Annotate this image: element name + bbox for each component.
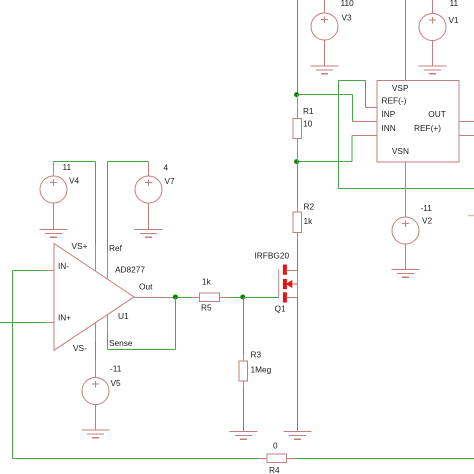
node Out junction dot	[173, 295, 178, 300]
svg-text:Out: Out	[139, 282, 153, 292]
resistor R2	[293, 202, 314, 241]
svg-text:REF(-): REF(-)	[382, 95, 407, 105]
svg-text:110: 110	[341, 0, 355, 8]
wire: VSP pin net vertical	[405, 0, 407, 81]
svg-text:R2: R2	[304, 202, 315, 212]
wire: INN staircase vertical	[351, 136, 353, 162]
svg-text:VS+: VS+	[72, 241, 88, 251]
resistor R3	[239, 350, 272, 389]
ground for V2	[392, 270, 420, 278]
voltage source V1	[419, 0, 459, 66]
svg-text:VS-: VS-	[73, 343, 87, 353]
wire: INP staircase vertical	[352, 95, 354, 122]
wire: node B to R2	[297, 162, 299, 206]
wire: REF(-) staircase vertical long	[338, 81, 340, 190]
voltage source V5	[82, 360, 122, 430]
svg-text:Sense: Sense	[109, 338, 133, 348]
wire: R2 to Q1 drain	[297, 240, 299, 271]
svg-text:VSN: VSN	[392, 146, 409, 156]
wire: V4 plus to VS+ horizontal	[54, 161, 96, 163]
svg-text:V2: V2	[422, 216, 433, 226]
svg-text:11: 11	[63, 162, 72, 172]
wire stub at right edge	[468, 215, 474, 217]
ground for V3	[311, 66, 339, 74]
wire: output node to R5	[171, 297, 192, 299]
wire: REF(-) staircase top horizontal	[339, 80, 366, 82]
svg-text:R3: R3	[251, 350, 262, 360]
wire: gate node to Q1 gate	[244, 297, 280, 299]
wire: gate node down to R3	[243, 298, 245, 355]
wire: R3 to ground	[243, 389, 245, 432]
node B junction dot	[294, 159, 299, 164]
resistor R5	[192, 277, 228, 313]
svg-text:V5: V5	[111, 378, 122, 388]
svg-text:1Meg: 1Meg	[251, 365, 272, 375]
svg-text:-11: -11	[421, 203, 433, 213]
svg-text:1k: 1k	[202, 277, 212, 287]
svg-text:AD8277: AD8277	[115, 265, 145, 275]
voltage source V4	[40, 162, 80, 230]
ground for V4	[40, 230, 68, 238]
wire: VS+ vertical	[95, 162, 97, 246]
svg-text:INN: INN	[382, 123, 396, 133]
wire: VS- green part	[95, 342, 97, 360]
ground for V7	[135, 230, 163, 238]
svg-text:OUT: OUT	[428, 109, 446, 119]
node A junction dot	[294, 92, 299, 97]
resistor R1	[293, 95, 314, 162]
svg-text:IN+: IN+	[58, 313, 71, 323]
svg-text:0: 0	[273, 441, 278, 451]
voltage source V2	[392, 162, 433, 270]
svg-text:10: 10	[303, 119, 313, 129]
wire: Ref vertical	[107, 162, 109, 253]
svg-text:V7: V7	[165, 176, 176, 186]
ground for V5	[82, 430, 110, 438]
wire: feedback vertical from output node	[175, 298, 177, 350]
svg-text:Ref: Ref	[109, 243, 123, 253]
svg-text:11: 11	[450, 0, 459, 8]
wire: V7 plus to Ref horizontal	[108, 161, 149, 163]
svg-text:REF(+): REF(+)	[414, 123, 441, 133]
svg-text:U1: U1	[118, 311, 129, 321]
svg-text:1k: 1k	[304, 216, 314, 226]
wire: horizontal net to right edge	[339, 188, 474, 190]
svg-text:Q1: Q1	[275, 304, 286, 314]
op-amp U1 AD8277	[46, 241, 171, 353]
svg-text:VSP: VSP	[392, 83, 409, 93]
svg-text:R4: R4	[269, 465, 280, 474]
ground for V1	[419, 66, 447, 74]
svg-text:V1: V1	[449, 15, 460, 25]
wire: bottom rail left of R4	[13, 458, 260, 460]
resistor R4	[260, 441, 295, 474]
wire: node B horizontal to INN staircase	[298, 161, 353, 163]
wire: Sense vertical green part	[107, 333, 109, 350]
svg-text:IN-: IN-	[58, 261, 69, 271]
difference amplifier block U2	[352, 81, 474, 163]
wire: R5 to gate node	[228, 297, 244, 299]
svg-text:4: 4	[164, 163, 169, 173]
svg-text:-11: -11	[110, 364, 122, 374]
svg-text:V4: V4	[69, 176, 80, 186]
svg-text:V3: V3	[342, 13, 353, 23]
svg-text:IRFBG20: IRFBG20	[255, 251, 290, 261]
ground for R3	[230, 432, 258, 440]
svg-text:R1: R1	[303, 106, 314, 116]
wire: left column vertical	[12, 271, 14, 459]
wire: bottom rail right of R4	[295, 458, 474, 460]
node gate junction dot	[240, 295, 245, 300]
wire: IN+ from left edge	[0, 322, 46, 324]
wire: Q1 source to ground	[297, 298, 299, 433]
voltage source V3	[311, 0, 354, 66]
wire: main vertical net top to R1	[297, 0, 299, 95]
wire: IN- horizontal to left column	[13, 270, 47, 272]
wire: feedback horizontal to Sense	[108, 349, 176, 351]
ground for Q1 source	[284, 432, 312, 440]
voltage source V7	[135, 162, 175, 230]
wire: node A to INP staircase horizontal	[298, 94, 353, 96]
svg-text:R5: R5	[201, 303, 212, 313]
svg-text:INP: INP	[382, 109, 396, 119]
transistor Q1 IRFBG20	[255, 251, 298, 314]
wire: REF(-) staircase down vertical	[365, 81, 367, 108]
